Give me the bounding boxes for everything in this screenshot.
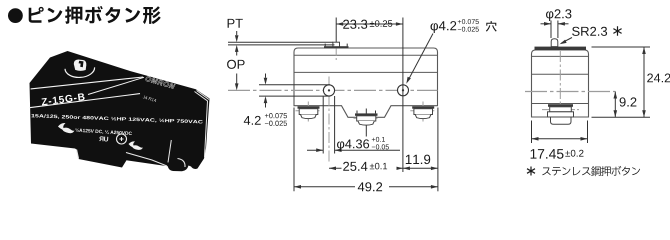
dimension dia2.3	[550, 21, 552, 39]
cert mark UR	[99, 136, 108, 141]
front view: case outline	[294, 48, 438, 117]
terminal screw right	[410, 110, 436, 112]
dimension 4.2 text	[244, 116, 261, 125]
right hole vertical extension line	[402, 18, 404, 173]
side view: internal lines	[532, 55, 589, 57]
dimension 4.36 text	[337, 139, 369, 151]
dimension 25.4	[329, 167, 403, 169]
dimension 23.3	[336, 23, 403, 25]
side view terminal screw	[542, 109, 579, 111]
label dia 4.2 hole	[431, 21, 457, 33]
pin plunger centerline	[335, 18, 337, 45]
switch illustration: black body silhouette	[30, 51, 210, 171]
mounting hole left (slot)	[323, 85, 334, 96]
front view: cover seam upper	[294, 54, 438, 56]
cert mark circled	[117, 134, 127, 144]
front/side separation highlight	[168, 140, 171, 162]
marking J4 R14 on top face	[143, 95, 157, 102]
dimension 4.2 arrows	[265, 74, 267, 78]
title bullet	[8, 8, 23, 23]
dimension 24.2	[592, 46, 651, 48]
PT reference lines	[228, 41, 333, 43]
front view: cover seam lower	[294, 71, 438, 73]
OP arrow	[236, 74, 238, 84]
OP label	[227, 60, 245, 69]
PT dimension arrows	[236, 31, 238, 35]
pin flange plate	[324, 44, 326, 47]
terminal screw highlight	[178, 159, 186, 168]
extension lines for 49.2	[293, 108, 295, 192]
SR2.3 leader line	[562, 38, 573, 44]
front face chamfer highlight line (above Z-15G-B)	[31, 77, 143, 89]
model label Z-15G-B	[41, 93, 85, 106]
dimension 49.2	[294, 186, 355, 188]
side view: top plate	[535, 47, 587, 50]
note text: stainless steel push button	[542, 166, 640, 176]
leader line to right hole	[408, 34, 434, 82]
illustration right-end face edge highlight	[195, 91, 210, 158]
asterisk after SR2.3	[613, 26, 621, 36]
ratings text line 1	[31, 114, 202, 124]
ratings text line 2	[75, 128, 132, 136]
terminal screw left	[296, 110, 322, 112]
side view: case outline	[532, 50, 589, 117]
left hole tangent extension lines	[259, 84, 330, 86]
dimension 9.2	[614, 92, 616, 118]
side view: vertical centerline	[559, 51, 561, 122]
PT label	[228, 19, 243, 28]
cert mark swoosh left	[58, 123, 75, 133]
side view terminal nut	[551, 117, 572, 124]
chamfer lower highlight line (below Z-15G-B)	[29, 94, 140, 108]
switch button plunger	[74, 60, 87, 71]
dimension 4.36 line and arrows	[307, 149, 323, 151]
cert mark swoosh right	[129, 141, 144, 150]
title text: pin push button type	[29, 6, 161, 24]
OMRON logo on top face	[145, 76, 175, 89]
left hole vertical centerline	[328, 77, 330, 164]
pin plunger	[333, 42, 340, 47]
mounting hole right	[398, 85, 409, 96]
side view: pin	[551, 39, 558, 47]
side view: OP centerline	[525, 91, 615, 93]
illustration bottom protrusion highlight	[77, 150, 79, 159]
terminal screw center	[354, 117, 380, 119]
note asterisk	[527, 167, 535, 176]
switch button ring arc on top face	[65, 67, 95, 77]
label SR2.3	[572, 27, 607, 36]
dimension 17.45	[531, 121, 533, 144]
dimension 11.9	[403, 167, 438, 169]
OP centerline through holes	[228, 89, 438, 91]
illustration front bottom edge highlight	[126, 153, 167, 167]
slot width extension lines	[322, 96, 324, 154]
